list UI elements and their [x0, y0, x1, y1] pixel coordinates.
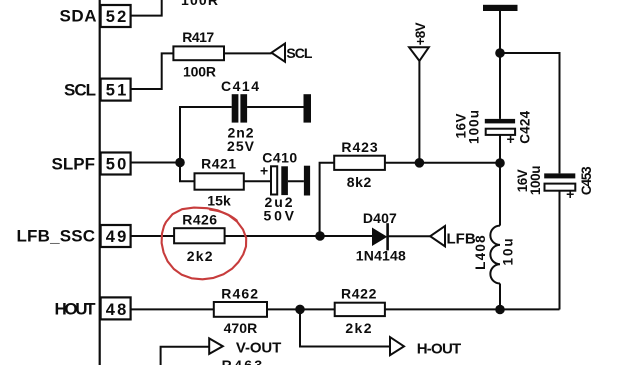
- svg-text:L408: L408: [473, 235, 488, 270]
- svg-text:2k2: 2k2: [187, 248, 213, 264]
- svg-text:+: +: [260, 163, 268, 179]
- svg-text:SLPF: SLPF: [52, 155, 96, 174]
- svg-text:+: +: [566, 186, 574, 202]
- svg-text:R422: R422: [341, 285, 377, 301]
- svg-text:LFB: LFB: [447, 231, 476, 248]
- svg-text:R423: R423: [341, 139, 378, 155]
- svg-text:C414: C414: [221, 78, 259, 94]
- svg-text:R462: R462: [221, 285, 258, 301]
- svg-text:1N4148: 1N4148: [356, 247, 406, 263]
- svg-text:C453: C453: [579, 166, 594, 195]
- svg-text:50V: 50V: [264, 208, 295, 224]
- svg-text:D407: D407: [363, 210, 397, 226]
- svg-text:100u: 100u: [466, 110, 481, 144]
- svg-text:LFB_SSC: LFB_SSC: [17, 227, 96, 246]
- svg-text:H-OUT: H-OUT: [417, 340, 462, 357]
- svg-text:+8V: +8V: [413, 22, 428, 45]
- svg-text:HOUT: HOUT: [55, 300, 97, 319]
- svg-text:100R: 100R: [183, 64, 216, 80]
- svg-text:100R: 100R: [181, 0, 218, 8]
- svg-text:+: +: [507, 131, 515, 147]
- svg-text:SDA: SDA: [60, 7, 97, 26]
- svg-text:2k2: 2k2: [345, 320, 371, 336]
- svg-text:100u: 100u: [528, 165, 543, 195]
- svg-text:R421: R421: [201, 156, 236, 172]
- svg-text:15k: 15k: [207, 192, 231, 208]
- svg-text:10u: 10u: [501, 238, 516, 265]
- svg-text:SCL: SCL: [286, 45, 312, 61]
- svg-text:R417: R417: [182, 29, 214, 45]
- svg-text:C424: C424: [518, 110, 533, 143]
- svg-text:8k2: 8k2: [347, 174, 372, 190]
- svg-text:V-OUT: V-OUT: [236, 340, 281, 357]
- svg-text:470R: 470R: [224, 320, 258, 336]
- svg-text:SCL: SCL: [64, 80, 96, 99]
- svg-text:R426: R426: [182, 212, 217, 228]
- svg-text:25V: 25V: [227, 138, 255, 154]
- svg-text:R463: R463: [222, 357, 263, 365]
